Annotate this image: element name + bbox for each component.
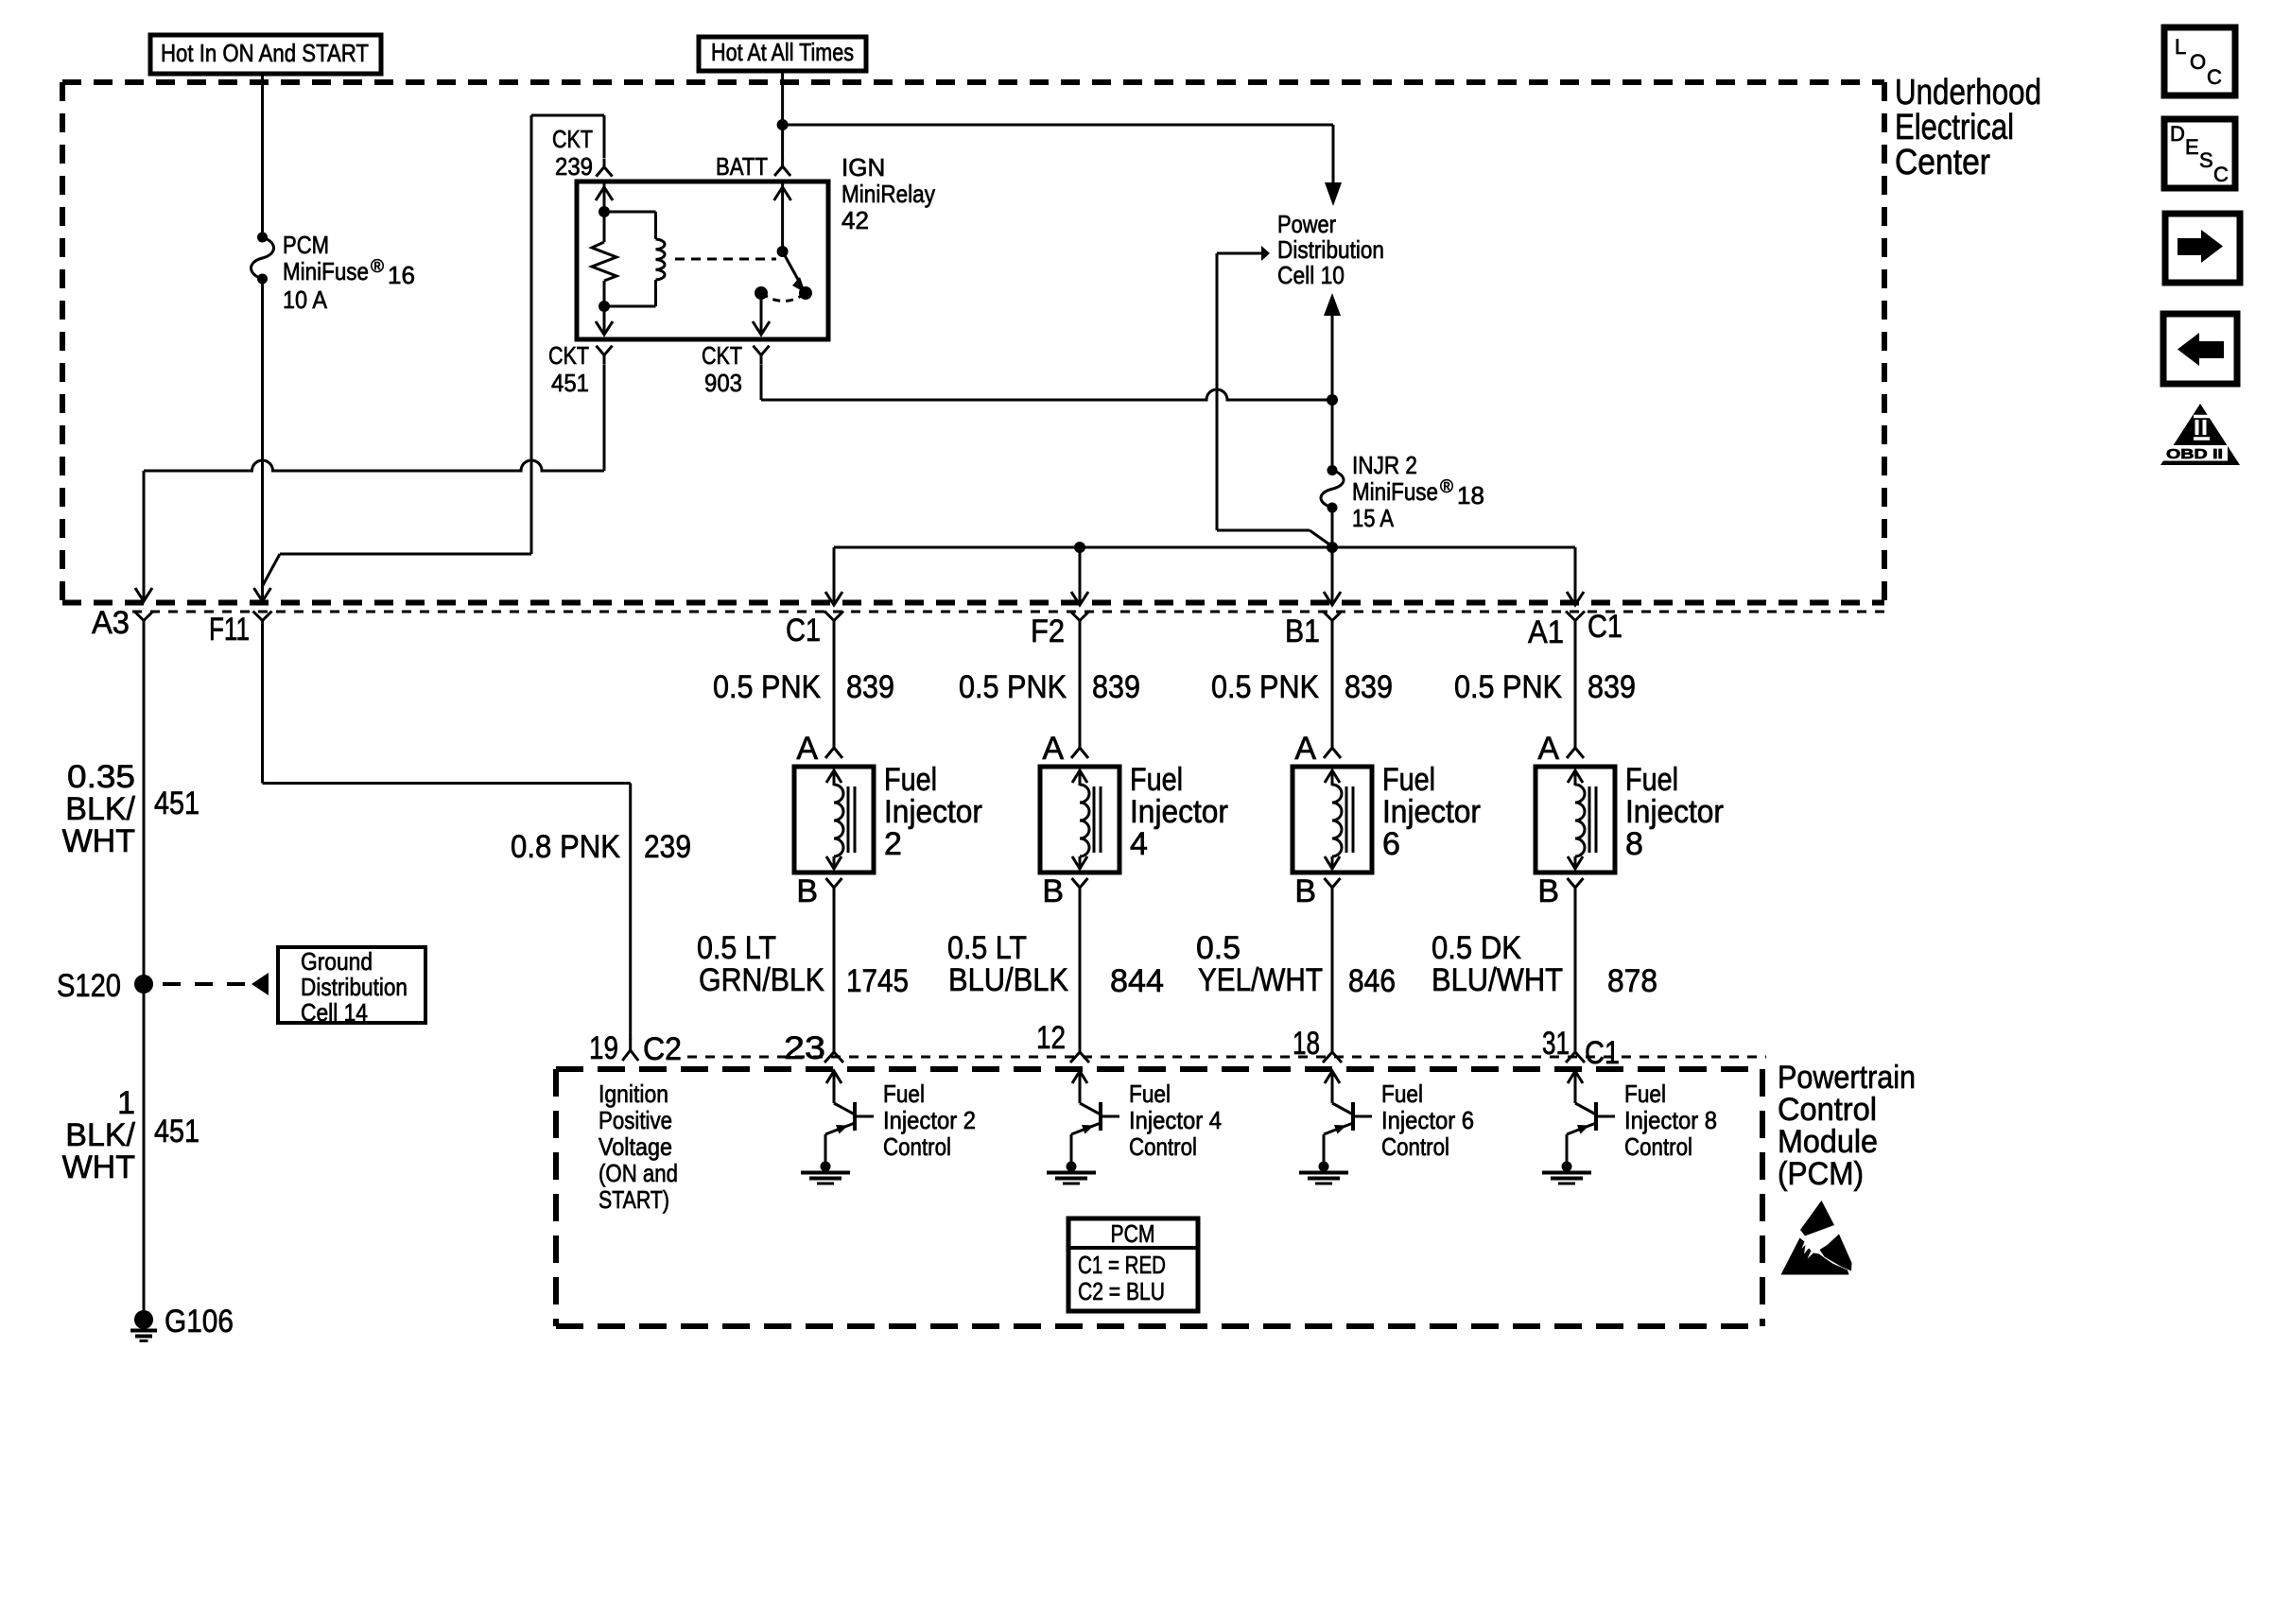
svg-text:Module: Module xyxy=(1778,1124,1878,1160)
wire: 0.5 PNK 839 feed to injector 2 xyxy=(833,631,836,748)
connector pin A of injector 8 xyxy=(1537,731,1584,767)
pin 12 of PCM (fuel injector 4 control) xyxy=(1036,1020,1089,1063)
svg-text:Cell 14: Cell 14 xyxy=(301,998,368,1027)
svg-text:Fuel: Fuel xyxy=(1129,1080,1171,1108)
svg-text:Voltage: Voltage xyxy=(599,1132,672,1161)
wire: CKT 239 from relay up-over-down loop xyxy=(531,115,604,554)
wire with arrow: bus drop to F2 connector xyxy=(1071,547,1088,605)
fuel injector 6 (solenoid valve) xyxy=(1293,762,1481,872)
svg-text:MiniFuse: MiniFuse xyxy=(1352,477,1438,506)
relay switch: dashed travel arc xyxy=(761,293,806,302)
svg-text:Injector 8: Injector 8 xyxy=(1624,1106,1717,1134)
wire: ignition feed from F11 down and across to PCM pin 19 xyxy=(263,631,631,1040)
relay internal resistor xyxy=(592,212,616,306)
svg-text:18: 18 xyxy=(1457,481,1484,510)
svg-text:Fuel: Fuel xyxy=(1381,1080,1423,1108)
svg-text:6: 6 xyxy=(1382,826,1400,862)
svg-text:Injector: Injector xyxy=(884,794,982,830)
svg-text:C1 = RED: C1 = RED xyxy=(1078,1251,1166,1279)
wire: Hot At All Times down to BATT junction xyxy=(781,71,784,159)
svg-text:15 A: 15 A xyxy=(1352,504,1395,532)
icon: next page arrow box xyxy=(2165,214,2240,283)
svg-text:Fuel: Fuel xyxy=(1130,762,1183,798)
relay internal: coil-side pin arrow up xyxy=(596,181,613,212)
connector pin A of injector 6 xyxy=(1294,731,1341,767)
relay pin BATT label and connector xyxy=(716,152,790,181)
svg-text:A: A xyxy=(1537,731,1559,767)
svg-text:A: A xyxy=(1294,731,1316,767)
wire: fuse 16 output down to F11 connector xyxy=(261,283,264,586)
svg-text:18: 18 xyxy=(1293,1026,1320,1062)
label: Fuel Injector 6 Control xyxy=(1381,1080,1474,1161)
svg-text:0.5: 0.5 xyxy=(1196,930,1241,966)
svg-text:Fuel: Fuel xyxy=(883,1080,925,1108)
svg-text:Injector 2: Injector 2 xyxy=(883,1106,976,1134)
svg-text:0.5 PNK: 0.5 PNK xyxy=(1454,669,1562,705)
svg-text:Control: Control xyxy=(1129,1132,1197,1161)
wire: CKT 451 down from relay xyxy=(603,365,606,471)
junction: bus dot at F2 branch xyxy=(1074,542,1085,553)
svg-text:12: 12 xyxy=(1036,1020,1066,1056)
label: 0.8 PNK 239 xyxy=(511,829,691,865)
svg-text:C1: C1 xyxy=(786,613,821,648)
ground (PCM internal) for injector 2 driver xyxy=(801,1162,850,1184)
fuel injector 4 (solenoid valve) xyxy=(1040,762,1228,872)
wire: Hot In ON And START feed down to fuse 16 xyxy=(261,74,264,233)
underhood electrical center dashed enclosure xyxy=(62,82,1884,603)
svg-text:451: 451 xyxy=(551,369,589,397)
connector pin B of injector 8 xyxy=(1537,873,1583,909)
wire with arrow: down to Power Distribution Cell 10 xyxy=(1325,125,1342,206)
svg-text:YEL/WHT: YEL/WHT xyxy=(1198,962,1323,998)
svg-text:Center: Center xyxy=(1895,143,1990,182)
svg-text:C: C xyxy=(2207,65,2222,89)
label: Fuel Injector 8 Control xyxy=(1624,1080,1717,1161)
svg-text:Underhood: Underhood xyxy=(1895,73,2041,112)
fuse F18: INJR 2 MiniFuse 18 15 A xyxy=(1321,400,1484,532)
ground G106 xyxy=(130,1304,234,1341)
wire with arrow: bus drop to B1 connector xyxy=(1324,547,1341,605)
svg-text:1745: 1745 xyxy=(846,963,909,999)
svg-text:Control: Control xyxy=(1381,1132,1449,1161)
svg-text:Distribution: Distribution xyxy=(1277,235,1384,264)
wire: CKT 903 down from relay and across (hops over power dist wire) xyxy=(761,365,1332,400)
svg-text:Hot At All Times: Hot At All Times xyxy=(711,38,854,66)
label: 0.5 PNK 839 (injector 8 feed) xyxy=(1454,669,1636,705)
dashed reference leader to Ground Distribution Cell 14 xyxy=(163,973,269,995)
wire: CKT 451 horizontal run to A3 (hops over F11 and 239 wires) xyxy=(144,460,604,471)
connector pin B of injector 4 xyxy=(1042,873,1087,909)
label: Powertrain Control Module (PCM) xyxy=(1778,1060,1916,1192)
relay switch: common from BATT xyxy=(774,181,791,251)
svg-text:C1: C1 xyxy=(1588,609,1622,645)
connector pin A of injector 4 xyxy=(1042,731,1088,767)
wire: fuse 18 output to injector bus xyxy=(1331,508,1334,547)
junction: BATT feed splice xyxy=(777,119,789,130)
fuel injector 2 (solenoid valve) xyxy=(794,762,982,872)
arrow into Power Distribution label from injector bus xyxy=(1217,246,1270,261)
svg-text:IGN: IGN xyxy=(842,153,885,181)
svg-text:Control: Control xyxy=(883,1132,951,1161)
junction: CKT 903 / power distribution splice xyxy=(1327,394,1338,406)
svg-text:START): START) xyxy=(599,1185,669,1214)
svg-text:BLU/BLK: BLU/BLK xyxy=(948,962,1068,998)
label: Ignition Positive Voltage (ON and START) xyxy=(599,1080,678,1214)
label: Fuel Injector 2 Control xyxy=(883,1080,976,1161)
svg-text:846: 846 xyxy=(1348,963,1396,999)
svg-text:Fuel: Fuel xyxy=(884,762,937,798)
connector B1 at underhood boundary (injector 6 feed) xyxy=(1285,612,1342,650)
svg-text:BLK/: BLK/ xyxy=(65,1117,135,1153)
svg-text:A: A xyxy=(1042,731,1064,767)
icon: OBD II triangle xyxy=(2160,404,2240,465)
connector F2 at underhood boundary (injector 4 feed) xyxy=(1031,612,1089,650)
svg-text:Injector: Injector xyxy=(1130,794,1228,830)
label: 0.5 PNK 839 (injector 6 feed) xyxy=(1211,669,1393,705)
svg-text:CKT: CKT xyxy=(548,341,589,370)
svg-text:0.5 LT: 0.5 LT xyxy=(947,930,1027,966)
svg-text:0.5 PNK: 0.5 PNK xyxy=(959,669,1067,705)
svg-text:A: A xyxy=(796,731,818,767)
svg-text:239: 239 xyxy=(555,152,593,181)
powertrain control module dashed enclosure xyxy=(556,1069,1762,1326)
svg-text:D: D xyxy=(2170,122,2185,146)
svg-text:O: O xyxy=(2190,50,2206,74)
svg-text:B: B xyxy=(1537,873,1559,909)
wire: injector 4 control to PCM pin xyxy=(1079,898,1082,1052)
pcm connector line (thin dashed) xyxy=(687,1056,1766,1059)
svg-text:10 A: 10 A xyxy=(283,285,328,314)
svg-text:CKT: CKT xyxy=(702,341,742,370)
svg-text:Fuel: Fuel xyxy=(1625,762,1678,798)
wire: injector 2 control to PCM pin xyxy=(833,898,836,1052)
label: Power Distribution Cell 10 xyxy=(1277,210,1384,289)
pcm connector legend box (PCM / C1=RED / C2=BLU) xyxy=(1068,1218,1198,1311)
wire with arrow: bus drop to A1 connector xyxy=(1567,547,1584,605)
svg-text:Injector 6: Injector 6 xyxy=(1381,1106,1474,1134)
svg-text:451: 451 xyxy=(154,1114,200,1149)
svg-text:OBD II: OBD II xyxy=(2166,446,2223,462)
svg-text:®: ® xyxy=(1440,477,1453,497)
svg-text:0.8 PNK: 0.8 PNK xyxy=(511,829,620,865)
svg-text:L: L xyxy=(2175,35,2186,59)
icon: LOC reference box xyxy=(2164,27,2235,95)
svg-text:0.5 DK: 0.5 DK xyxy=(1431,930,1521,966)
svg-text:16: 16 xyxy=(388,261,415,289)
svg-text:C1: C1 xyxy=(1585,1035,1620,1071)
svg-text:Injector 4: Injector 4 xyxy=(1129,1106,1222,1134)
icon: previous page arrow box xyxy=(2163,314,2237,384)
relay internal actuation dashed link xyxy=(675,258,776,261)
wire: 0.5 PNK 839 feed to injector 8 xyxy=(1574,631,1577,748)
svg-text:GRN/BLK: GRN/BLK xyxy=(699,962,824,998)
svg-text:MiniRelay: MiniRelay xyxy=(842,180,935,208)
svg-text:F11: F11 xyxy=(209,612,250,648)
relay switch: pivot dot xyxy=(777,246,789,257)
svg-text:WHT: WHT xyxy=(62,823,135,859)
wire: injector 6 control to PCM pin xyxy=(1331,898,1334,1052)
connector F11 at underhood boundary xyxy=(209,612,272,648)
svg-text:Control: Control xyxy=(1624,1132,1692,1161)
svg-text:0.5 PNK: 0.5 PNK xyxy=(713,669,821,705)
pin 31 C1 of PCM (fuel injector 8 control) xyxy=(1542,1026,1620,1071)
svg-text:4: 4 xyxy=(1130,826,1148,862)
wire: injector feed bus xyxy=(834,546,1575,549)
svg-text:WHT: WHT xyxy=(62,1149,135,1185)
esd sensitive device symbol xyxy=(1781,1201,1852,1275)
svg-text:INJR 2: INJR 2 xyxy=(1352,451,1417,479)
svg-text:42: 42 xyxy=(842,206,869,234)
svg-text:839: 839 xyxy=(1092,669,1140,705)
svg-text:B: B xyxy=(796,873,818,909)
pin 18 of PCM (fuel injector 6 control) xyxy=(1293,1026,1342,1063)
label: YEL/WHT 846 wire xyxy=(1196,930,1396,999)
label: 0.5 PNK 839 (injector 2 feed) xyxy=(713,669,894,705)
relay switch: output arrow down to CKT 903 xyxy=(753,293,770,335)
svg-text:Injector: Injector xyxy=(1382,794,1481,830)
svg-text:Cell 10: Cell 10 xyxy=(1277,261,1345,289)
relay internal: coil-side pin arrow down to CKT 451 xyxy=(596,306,613,335)
svg-text:19: 19 xyxy=(589,1030,618,1066)
wire: 451 BLK/WHT from A3 down to S120 xyxy=(143,631,146,984)
svg-text:8: 8 xyxy=(1625,826,1643,862)
fuel injector 8 (solenoid valve) xyxy=(1536,762,1724,872)
wire: 0.5 PNK 839 feed to injector 4 xyxy=(1079,631,1082,748)
svg-text:(PCM): (PCM) xyxy=(1778,1156,1864,1192)
transistor Q2: fuel injector 2 driver xyxy=(825,1071,874,1165)
svg-text:®: ® xyxy=(371,257,384,277)
reference box: Ground Distribution Cell 14 xyxy=(278,947,425,1027)
label: GRN/BLK 1745 wire xyxy=(697,930,909,999)
svg-text:Fuel: Fuel xyxy=(1382,762,1435,798)
relay switch: stationary contact dot xyxy=(755,286,768,300)
connector A3 at underhood boundary xyxy=(92,605,153,641)
svg-text:Distribution: Distribution xyxy=(301,973,408,1001)
relay internal: coil bottom junction dot xyxy=(599,301,610,312)
ground (PCM internal) for injector 4 driver xyxy=(1047,1162,1096,1184)
svg-text:Positive: Positive xyxy=(599,1106,672,1134)
label CKT 239 xyxy=(552,125,593,181)
label CKT 451 and connector xyxy=(548,341,613,397)
label: BLU/BLK 844 wire xyxy=(947,930,1164,999)
wire: injector 8 control to PCM pin xyxy=(1574,898,1577,1052)
connector A1 C1 at underhood boundary (injector 8 feed) xyxy=(1528,609,1622,650)
svg-text:E: E xyxy=(2185,135,2199,159)
svg-text:C2: C2 xyxy=(643,1031,682,1067)
underhood connector line (thin dashed) xyxy=(132,611,1884,613)
svg-text:451: 451 xyxy=(154,786,200,821)
svg-text:MiniFuse: MiniFuse xyxy=(283,257,369,285)
svg-text:903: 903 xyxy=(704,369,742,397)
wire: CKT 239 across to F11 drop xyxy=(263,554,532,586)
svg-text:B: B xyxy=(1294,873,1316,909)
power tag: Hot At All Times xyxy=(699,37,866,71)
svg-text:BATT: BATT xyxy=(716,152,768,181)
svg-text:878: 878 xyxy=(1607,963,1657,999)
svg-text:Electrical: Electrical xyxy=(1895,108,2014,147)
svg-text:PCM: PCM xyxy=(283,231,329,259)
svg-text:A3: A3 xyxy=(92,605,130,641)
svg-text:(ON and: (ON and xyxy=(599,1159,678,1187)
transistor Q8: fuel injector 8 driver xyxy=(1567,1071,1615,1165)
wire: 0.5 PNK 839 feed to injector 6 xyxy=(1331,631,1334,748)
svg-text:0.5 LT: 0.5 LT xyxy=(697,930,776,966)
relay coil (inductor) branch xyxy=(604,212,665,306)
relay coil supply pin (CKT 239) connector xyxy=(597,159,613,177)
label: 1 BLK/WHT 451 xyxy=(62,1085,200,1185)
relay switch: moving blade with arrowhead xyxy=(783,251,806,293)
wire: BATT splice to power distribution (horizontal) xyxy=(783,124,1333,127)
svg-text:1: 1 xyxy=(117,1085,135,1121)
pin 23 of PCM (fuel injector 2 control) xyxy=(784,1030,843,1066)
svg-text:C2 = BLU: C2 = BLU xyxy=(1078,1277,1165,1305)
svg-text:Injector: Injector xyxy=(1625,794,1724,830)
svg-text:31: 31 xyxy=(1542,1026,1570,1062)
label: 0.35 BLK/WHT 451 xyxy=(62,759,200,859)
underhood electrical center label xyxy=(1895,73,2041,182)
connector C1 at underhood boundary (injector 2 feed) xyxy=(786,612,843,649)
svg-text:F2: F2 xyxy=(1031,613,1065,649)
svg-text:S120: S120 xyxy=(57,968,121,1004)
svg-text:S: S xyxy=(2199,148,2213,172)
label: 0.5 PNK 839 (injector 4 feed) xyxy=(959,669,1140,705)
wire: A3 drop with arrow xyxy=(135,471,152,601)
svg-text:C: C xyxy=(2213,163,2229,186)
connector pin B of injector 6 xyxy=(1294,873,1340,909)
connector pin B of injector 2 xyxy=(796,873,842,909)
fuse F16: PCM MiniFuse 16 10 A xyxy=(252,231,415,314)
node S120 splice xyxy=(57,968,153,1004)
svg-text:A1: A1 xyxy=(1528,614,1564,650)
svg-text:Power: Power xyxy=(1277,210,1336,238)
pin 19 C2 of PCM (ignition positive voltage) xyxy=(589,1030,682,1067)
svg-text:Fuel: Fuel xyxy=(1624,1080,1666,1108)
wire: power distribution tap down to injector bus xyxy=(1217,253,1332,546)
svg-text:BLK/: BLK/ xyxy=(65,791,135,827)
wire with arrow: bus drop to C1 connector xyxy=(825,547,842,605)
wire with arrow: up to Power Distribution Cell 10 (from INJR2 feed) xyxy=(1324,293,1341,400)
relay internal: coil top junction dot xyxy=(599,206,610,217)
label: Fuel Injector 4 Control xyxy=(1129,1080,1222,1161)
junction: bus dot at B1 branch xyxy=(1327,542,1338,553)
svg-text:839: 839 xyxy=(1345,669,1393,705)
svg-text:2: 2 xyxy=(884,826,902,862)
label: BLU/WHT 878 wire xyxy=(1431,930,1657,999)
transistor Q4: fuel injector 4 driver xyxy=(1071,1071,1119,1165)
icon: DESC reference box xyxy=(2164,119,2235,188)
wire: 1 BLK/WHT 451 from S120 down to G106 xyxy=(143,984,146,1320)
svg-text:239: 239 xyxy=(644,829,691,865)
relay switch: blade tip dot xyxy=(799,286,812,300)
svg-text:CKT: CKT xyxy=(552,125,593,153)
svg-text:PCM: PCM xyxy=(1111,1219,1155,1248)
ground (PCM internal) for injector 6 driver xyxy=(1299,1162,1348,1184)
svg-text:0.5 PNK: 0.5 PNK xyxy=(1211,669,1319,705)
label CKT 903 and connector xyxy=(702,341,770,397)
svg-text:0.35: 0.35 xyxy=(67,759,135,795)
svg-text:Ground: Ground xyxy=(301,947,373,976)
svg-text:Powertrain: Powertrain xyxy=(1778,1060,1916,1096)
wire: F11 drop arrow xyxy=(254,586,271,601)
svg-text:Hot In ON And START: Hot In ON And START xyxy=(161,39,369,67)
svg-text:844: 844 xyxy=(1110,963,1164,999)
svg-text:B1: B1 xyxy=(1285,613,1320,649)
connector pin A of injector 2 xyxy=(796,731,842,767)
svg-text:23: 23 xyxy=(784,1030,825,1066)
svg-text:BLU/WHT: BLU/WHT xyxy=(1431,962,1563,998)
svg-text:839: 839 xyxy=(1588,669,1636,705)
relay K42: IGN MiniRelay 42 outline xyxy=(577,153,935,339)
ground (PCM internal) for injector 8 driver xyxy=(1542,1162,1591,1184)
svg-text:B: B xyxy=(1042,873,1064,909)
transistor Q6: fuel injector 6 driver xyxy=(1324,1071,1372,1165)
svg-text:G106: G106 xyxy=(165,1304,234,1339)
svg-text:839: 839 xyxy=(846,669,894,705)
power tag: Hot In ON And START xyxy=(150,35,381,74)
svg-text:Control: Control xyxy=(1778,1092,1877,1128)
svg-text:Ignition: Ignition xyxy=(599,1080,668,1108)
